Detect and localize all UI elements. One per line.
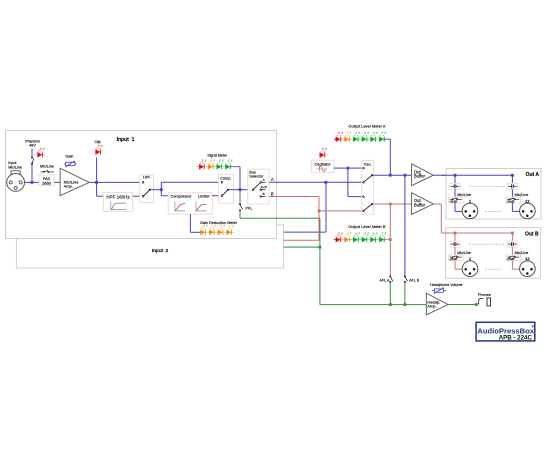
svg-text:Mic/Line: Mic/Line bbox=[515, 193, 529, 197]
svg-text:Output Level Meter B: Output Level Meter B bbox=[348, 224, 386, 229]
svg-text:-26dB: -26dB bbox=[506, 199, 514, 203]
svg-text:Amp.: Amp. bbox=[427, 304, 436, 309]
svg-text:APB - 224C: APB - 224C bbox=[499, 335, 533, 342]
svg-text:A: A bbox=[271, 177, 274, 182]
svg-text:48V: 48V bbox=[29, 143, 36, 147]
svg-text:Buffer: Buffer bbox=[414, 174, 426, 179]
svg-text:Signal Meter: Signal Meter bbox=[207, 153, 227, 157]
svg-text:®: ® bbox=[532, 326, 534, 329]
svg-text:Out A: Out A bbox=[526, 172, 540, 178]
svg-text:12: 12 bbox=[525, 198, 530, 203]
svg-text:Gain: Gain bbox=[65, 155, 73, 159]
svg-text:Out B: Out B bbox=[525, 231, 539, 237]
svg-text:Mic/Line: Mic/Line bbox=[457, 193, 471, 197]
svg-text:26dB: 26dB bbox=[42, 181, 51, 185]
svg-text:Input 2: Input 2 bbox=[152, 248, 169, 253]
svg-text:B: B bbox=[263, 192, 265, 196]
svg-text:Comp.: Comp. bbox=[220, 176, 231, 180]
svg-text:Mic/Line: Mic/Line bbox=[40, 164, 54, 168]
svg-text:Compressor: Compressor bbox=[170, 194, 192, 199]
svg-text:-26dB: -26dB bbox=[449, 199, 457, 203]
svg-text:-26dB: -26dB bbox=[449, 257, 457, 261]
svg-text:Clip: Clip bbox=[94, 140, 100, 144]
svg-text:Limiter: Limiter bbox=[198, 194, 210, 199]
svg-text:Headphone Volume: Headphone Volume bbox=[430, 283, 462, 287]
svg-text:A+B: A+B bbox=[261, 185, 267, 189]
svg-text:AFL B: AFL B bbox=[409, 278, 420, 282]
svg-text:Amp.: Amp. bbox=[64, 184, 73, 189]
svg-text:Buffer: Buffer bbox=[414, 203, 426, 208]
svg-text:-26dB: -26dB bbox=[506, 257, 514, 261]
svg-text:HPF 160Hz: HPF 160Hz bbox=[106, 194, 130, 199]
svg-text:Output Level Meter A: Output Level Meter A bbox=[348, 124, 385, 129]
svg-text:Mic/Line: Mic/Line bbox=[515, 251, 529, 255]
svg-text:Input 1: Input 1 bbox=[117, 137, 135, 143]
svg-text:B: B bbox=[271, 191, 274, 196]
svg-text:12: 12 bbox=[525, 256, 530, 261]
svg-text:Gain Reduction Meter: Gain Reduction Meter bbox=[200, 221, 238, 225]
svg-text:PFL: PFL bbox=[245, 207, 252, 211]
svg-text:Phones: Phones bbox=[478, 293, 491, 297]
svg-text:Oscillator: Oscillator bbox=[314, 161, 331, 166]
svg-text:Mic/Line: Mic/Line bbox=[457, 251, 471, 255]
svg-text:Mic/Line: Mic/Line bbox=[8, 165, 22, 169]
svg-text:Osc.: Osc. bbox=[364, 162, 372, 166]
svg-text:AFL A: AFL A bbox=[379, 278, 389, 282]
svg-text:HPF: HPF bbox=[143, 176, 151, 180]
